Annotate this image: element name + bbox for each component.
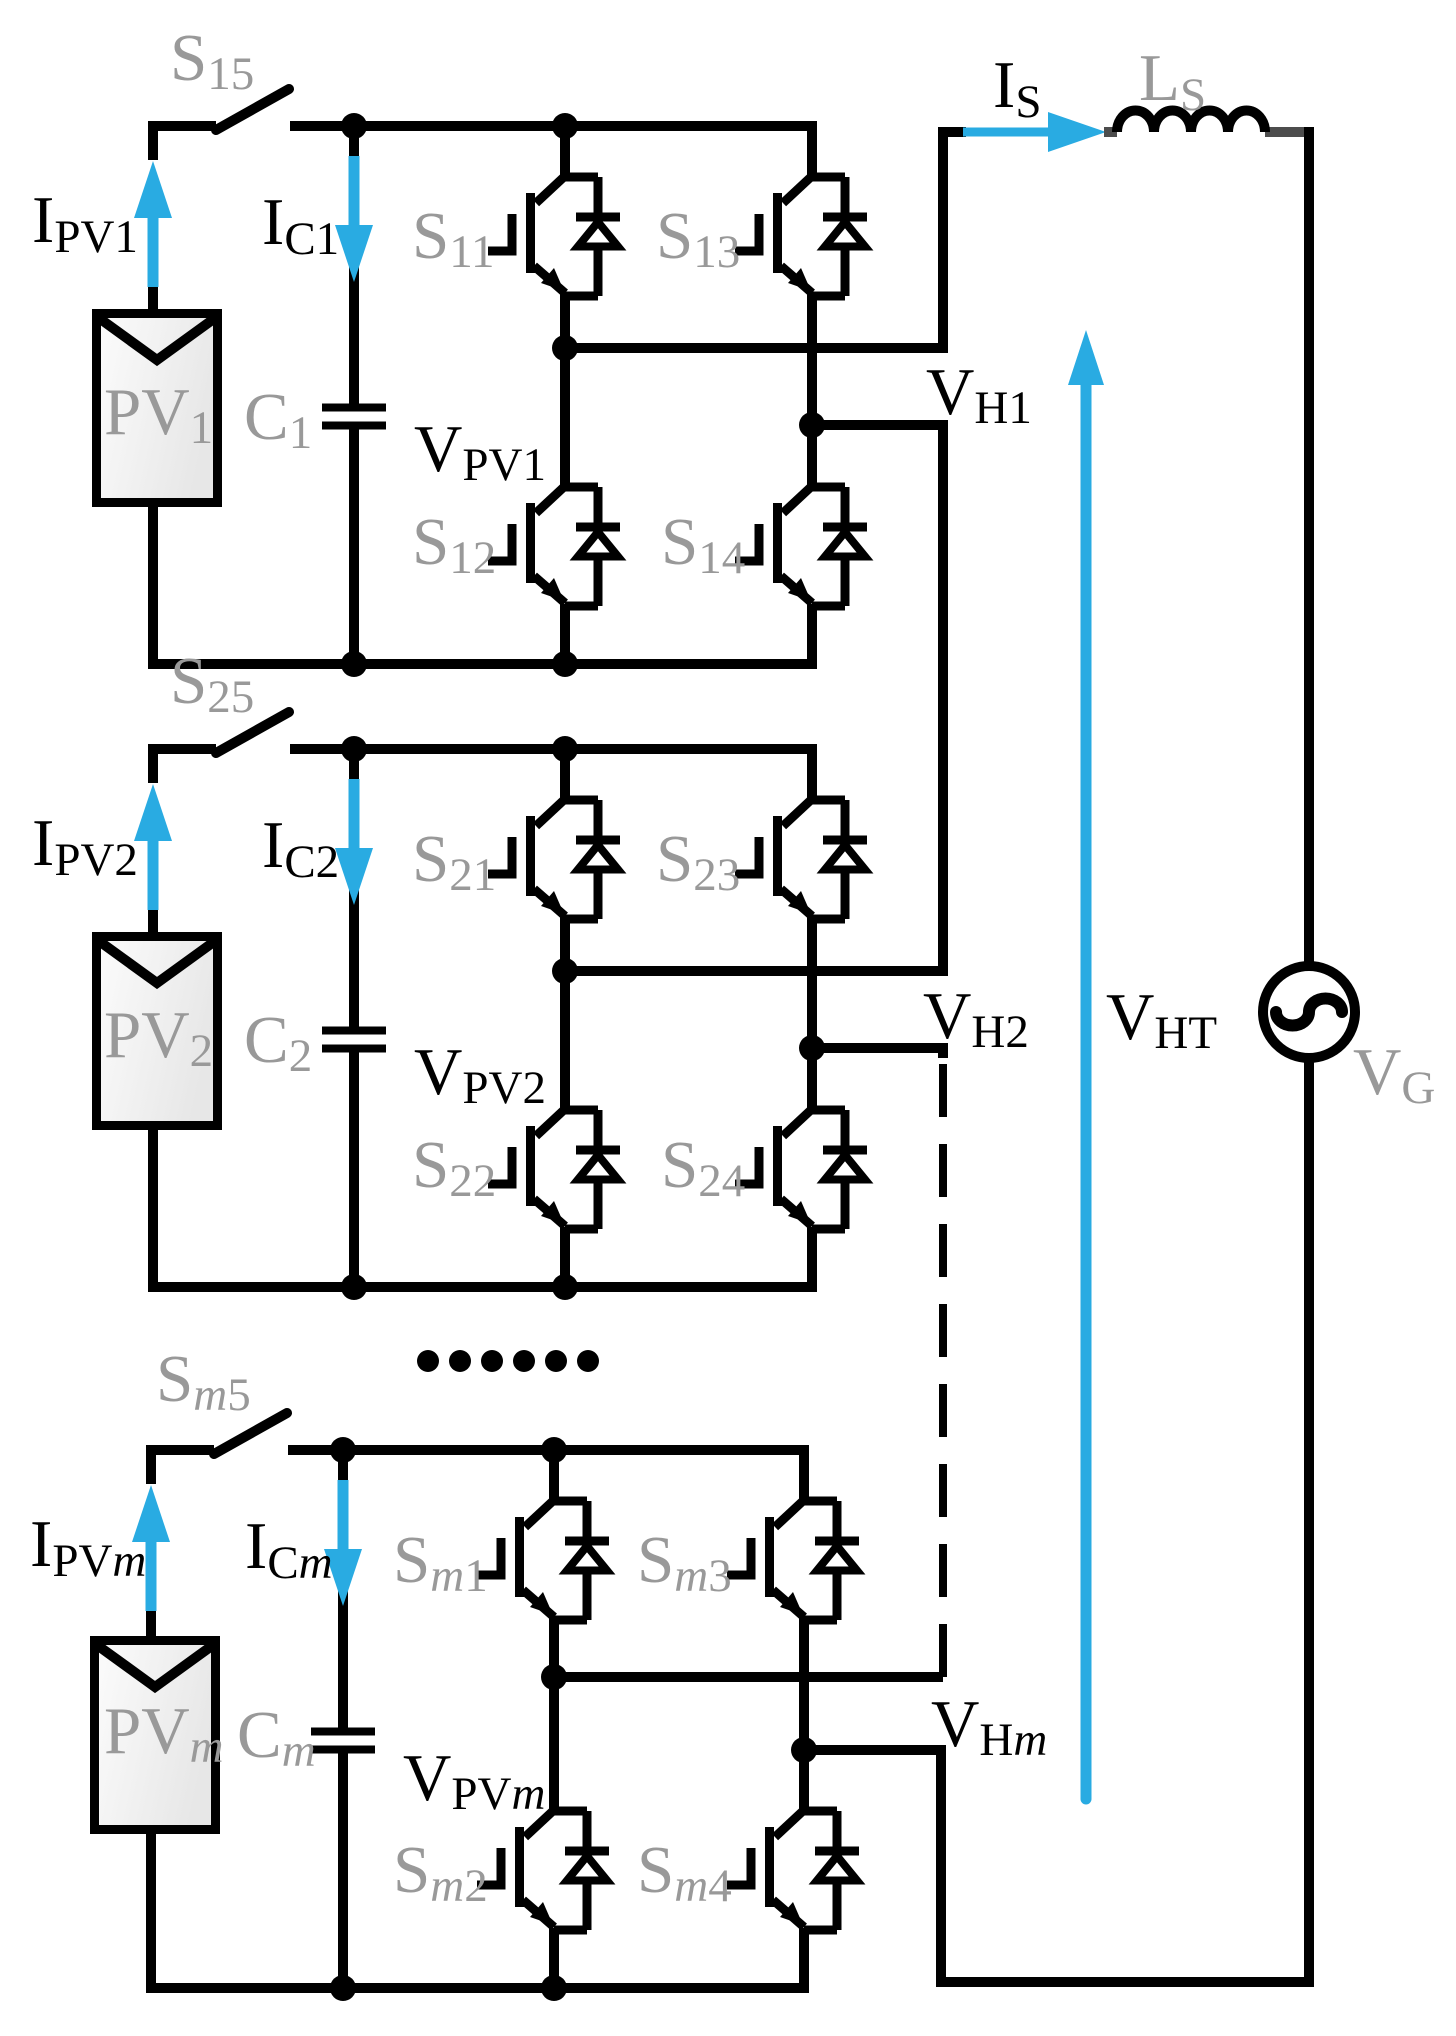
svg-text:S15: S15 [170, 21, 254, 100]
svg-text:VH2: VH2 [923, 979, 1029, 1058]
svg-text:VHT: VHT [1106, 980, 1217, 1059]
svg-text:S13: S13 [656, 199, 740, 278]
svg-text:VHm: VHm [931, 1687, 1047, 1766]
svg-text:IC2: IC2 [262, 808, 339, 888]
svg-text:VPV2: VPV2 [414, 1035, 546, 1114]
svg-text:VPVm: VPVm [403, 1741, 545, 1820]
svg-text:ICm: ICm [245, 1509, 333, 1589]
svg-text:VG: VG [1353, 1035, 1435, 1114]
svg-text:IC1: IC1 [262, 185, 339, 265]
svg-text:Cm: Cm [237, 1698, 316, 1777]
svg-text:S22: S22 [412, 1128, 496, 1207]
svg-text:Sm1: Sm1 [393, 1523, 488, 1602]
svg-text:S23: S23 [656, 822, 740, 901]
svg-text:IS: IS [993, 48, 1041, 128]
svg-text:Sm5: Sm5 [156, 1342, 251, 1421]
svg-text:Sm2: Sm2 [393, 1833, 488, 1912]
svg-text:LS: LS [1139, 41, 1206, 121]
svg-text:C2: C2 [244, 1003, 312, 1082]
svg-text:IPVm: IPVm [30, 1507, 146, 1587]
svg-text:S25: S25 [170, 644, 254, 723]
svg-text:S11: S11 [412, 199, 495, 278]
svg-text:S21: S21 [412, 822, 496, 901]
svg-text:S14: S14 [661, 505, 745, 584]
svg-text:S12: S12 [412, 505, 496, 584]
svg-text:C1: C1 [244, 380, 312, 459]
svg-text:Sm4: Sm4 [637, 1833, 732, 1912]
svg-text:Sm3: Sm3 [637, 1523, 732, 1602]
svg-text:S24: S24 [661, 1128, 745, 1207]
svg-text:IPV1: IPV1 [32, 183, 138, 263]
svg-text:VPV1: VPV1 [414, 412, 546, 491]
svg-text:VH1: VH1 [926, 355, 1032, 434]
svg-text:IPV2: IPV2 [32, 806, 138, 886]
